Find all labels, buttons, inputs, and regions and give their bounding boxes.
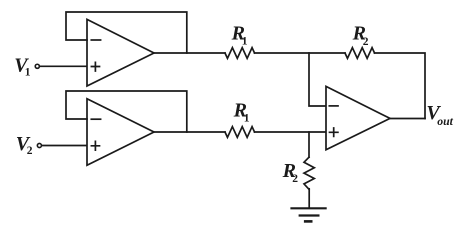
U1 minus sign bbox=[91, 39, 100, 41]
wire R1 to node A bbox=[255, 52, 346, 54]
resistor R1 (bottom) bbox=[225, 127, 255, 138]
U2 minus sign bbox=[91, 118, 100, 120]
node V2 terminal circle bbox=[37, 143, 41, 147]
svg-text:2: 2 bbox=[27, 145, 33, 157]
label V2 bbox=[16, 133, 33, 157]
U1 plus sign bbox=[91, 62, 99, 71]
node B: junction to resistor R2 (bottom) bbox=[308, 132, 310, 157]
label Vout bbox=[426, 102, 453, 128]
wire V1 to op-amp U1 + input bbox=[40, 65, 87, 67]
svg-text:2: 2 bbox=[292, 173, 298, 185]
op-amp U1 (top buffer) bbox=[87, 19, 154, 86]
op-amp U2 (bottom buffer) bbox=[87, 99, 154, 166]
U3 minus sign bbox=[329, 105, 338, 107]
wire R2 to output feedback corner bbox=[375, 53, 426, 119]
svg-text:1: 1 bbox=[25, 67, 31, 79]
label R2 (bottom) bbox=[282, 160, 299, 185]
svg-text:1: 1 bbox=[242, 35, 248, 47]
op-amp U3 (difference amplifier) bbox=[326, 86, 390, 149]
wire U2 output bbox=[154, 131, 225, 133]
U2 plus sign bbox=[91, 141, 99, 150]
svg-text:out: out bbox=[437, 114, 453, 128]
wire U1 output bbox=[154, 52, 225, 54]
label R1 (bottom) bbox=[233, 100, 250, 125]
resistor R2 (bottom, vertical) bbox=[304, 157, 314, 189]
label R2 (top) bbox=[352, 23, 369, 48]
node A: junction to U3 inverting input bbox=[309, 53, 326, 106]
ground bbox=[292, 208, 326, 221]
svg-text:2: 2 bbox=[363, 36, 369, 48]
wire R2 to ground bbox=[308, 189, 310, 208]
wire U1 feedback loop (minus input to output) bbox=[66, 12, 187, 53]
svg-text:1: 1 bbox=[244, 113, 250, 125]
resistor R2 (top, feedback) bbox=[345, 48, 375, 59]
label V1 bbox=[14, 54, 31, 78]
wire V2 to op-amp U2 + input bbox=[42, 145, 87, 147]
label R1 (top) bbox=[231, 23, 248, 48]
wire U3 output bbox=[390, 118, 425, 120]
wire R1 to U3 + input bbox=[255, 131, 327, 133]
U3 plus sign bbox=[330, 128, 338, 136]
wire U2 feedback loop (minus input to output) bbox=[66, 91, 187, 132]
resistor R1 (top) bbox=[225, 48, 255, 59]
node V1 terminal circle bbox=[35, 64, 39, 68]
